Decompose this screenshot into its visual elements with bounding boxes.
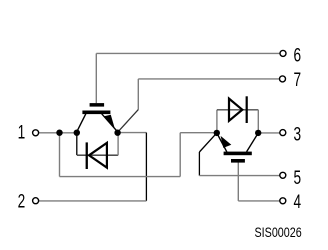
terminal label 2 [18,190,26,212]
terminal 2 circle [33,198,39,204]
wire: terminal 7 horizontal [138,78,279,80]
terminal 1 circle [33,130,39,136]
terminal label 7 [294,69,302,91]
wire: node B drop vertical [59,133,61,177]
diode D1 lead vertical right [117,136,119,156]
terminal label 3 [294,124,302,146]
wire: link horizontal to node D [180,132,214,134]
wire: lower link horizontal [60,176,181,178]
svg-text:6: 6 [294,44,302,66]
wire: slant node D to terminal 5 drop [199,133,216,152]
svg-text:1: 1 [18,122,26,144]
transistor Q1 drain leg [102,114,118,132]
node A junction dot [56,130,62,136]
transistor Q1 arrow [104,115,115,129]
wire: gate lead Q1 vertical [95,53,97,103]
diode D1 anode lead vertical [76,136,78,156]
diode D2 anode lead vertical [216,110,218,131]
svg-text:SIS00026: SIS00026 [255,224,302,240]
terminal 3 circle [280,130,286,136]
transistor Q2 channel bar [224,152,252,156]
diode D2 cathode bar [246,96,248,123]
wire: terminal 2 horizontal [39,200,147,202]
wire: terminal 4 horizontal [238,200,280,202]
node D junction dot [214,130,220,136]
terminal 5 circle [280,172,286,178]
transistor Q2 arrow [221,136,232,148]
wire: diode D2 branch horizontal [217,109,258,111]
node B junction dot [74,130,80,136]
diode D1 triangle [89,143,107,168]
wire: terminal 7 vertical drop [137,79,139,110]
terminal 7 circle [280,76,286,82]
wire: terminal 1 to node A [39,132,77,134]
drawing number label SIS00026 [255,224,302,240]
transistor Q1 gate bar [90,103,105,107]
node E junction dot [255,130,261,136]
wire: terminal 5 horizontal [199,175,280,177]
wire: link riser to node D [179,133,181,177]
wire: diode D1 branch horizontal [77,154,118,156]
transistor Q2 drain leg [247,133,259,152]
terminal 4 circle [280,198,286,204]
svg-text:7: 7 [294,69,302,91]
svg-text:3: 3 [294,124,302,146]
wire: vertical riser to terminal 2 line [145,133,147,201]
transistor Q1 source leg [77,114,86,132]
wire: node E to terminal 3 [258,132,280,134]
terminal 6 circle [280,50,286,56]
wire: node C to vertical riser [118,132,146,134]
terminal label 6 [294,44,302,66]
svg-text:4: 4 [294,191,302,213]
transistor Q2 source leg [217,133,227,152]
svg-text:5: 5 [294,167,302,189]
terminal label 4 [294,191,302,213]
node C junction dot [114,130,120,136]
wire: terminal 6 horizontal [96,52,280,54]
wire: slant from terminal 7 drop to node C [118,110,138,132]
transistor Q1 channel bar [82,111,110,115]
wire: terminal 5 vertical drop [198,152,200,176]
diode D2 cathode lead vertical [257,110,259,131]
diode D1 cathode bar [86,142,88,169]
diode D2 triangle [229,99,242,121]
terminal label 5 [294,167,302,189]
wire: gate lead Q2 vertical [237,162,239,201]
terminal label 1 [18,122,26,144]
svg-text:2: 2 [18,190,26,212]
transistor Q2 gate bar [231,159,245,163]
